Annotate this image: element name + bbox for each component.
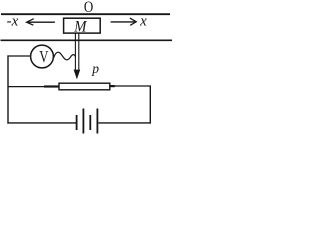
- left arrow: [27, 19, 55, 26]
- top rail: [1, 13, 170, 15]
- potentiometer right lead stub: [110, 85, 115, 87]
- bottom wire right of battery: [98, 122, 151, 124]
- mass block M: [64, 18, 101, 33]
- svg-text:x: x: [139, 14, 147, 30]
- wire potentiometer to right bus: [115, 85, 151, 87]
- potentiometer body: [59, 83, 110, 90]
- wire voltmeter to left bus: [8, 55, 31, 57]
- svg-text:M: M: [73, 19, 88, 36]
- right arrow: [111, 18, 137, 25]
- right bus wire: [149, 85, 151, 123]
- battery cell 2 short plate: [89, 115, 91, 130]
- curly lead voltmeter to wiper: [54, 52, 76, 60]
- svg-text:O: O: [84, 0, 93, 16]
- battery cell 2 long plate: [96, 109, 98, 134]
- wire left bus to potentiometer: [8, 86, 59, 88]
- lower rail: [1, 39, 173, 41]
- battery cell 1 short plate: [76, 115, 78, 130]
- bottom wire left of battery: [7, 122, 76, 124]
- left bus wire: [7, 55, 9, 123]
- potentiometer left lead stub: [44, 85, 60, 87]
- wiper arrowhead: [74, 70, 81, 80]
- voltmeter V: [31, 45, 54, 68]
- svg-text:-x: -x: [7, 14, 19, 30]
- battery cell 1 long plate: [82, 109, 84, 134]
- svg-text:p: p: [91, 61, 99, 76]
- svg-text:V: V: [39, 47, 49, 66]
- pointer rod from M: [75, 33, 78, 71]
